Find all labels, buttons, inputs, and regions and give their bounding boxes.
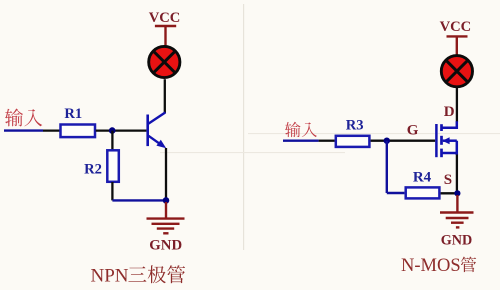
transistor Q1 base bar xyxy=(146,115,149,147)
power bar VCC (right) xyxy=(447,36,468,55)
GND label (right) xyxy=(441,233,473,249)
wire lamp to drain xyxy=(456,88,458,122)
ground stub (left) xyxy=(165,202,167,218)
GND label (left) xyxy=(149,237,182,253)
mosfet Q2 drain connection xyxy=(442,121,457,127)
mosfet Q2 gate bar xyxy=(435,124,438,157)
faint grid line vertical xyxy=(243,4,244,250)
label D xyxy=(444,104,455,120)
wire input to R1 black xyxy=(43,129,60,131)
junction node A xyxy=(109,127,116,134)
wire node A down to R2 xyxy=(111,131,113,150)
svg-text:D: D xyxy=(444,104,455,120)
transistor Q1 collector diagonal xyxy=(149,112,166,123)
input label 输入 (right) xyxy=(285,122,317,137)
mosfet Q2 channel segment bottom xyxy=(440,149,443,158)
wire R2 to emitter node (blue) xyxy=(112,199,166,201)
resistor R3 xyxy=(336,136,370,147)
svg-text:GND: GND xyxy=(149,237,182,253)
wire R2 bottom down xyxy=(111,182,113,200)
caption 三极管 (cjk) xyxy=(128,265,185,283)
resistor R2 xyxy=(107,150,119,182)
svg-text:VCC: VCC xyxy=(440,19,472,35)
junction node B xyxy=(163,197,170,204)
caption 管 (cjk) xyxy=(461,257,476,273)
wire node C down (blue) xyxy=(386,141,388,193)
wire to R4 (blue) xyxy=(387,192,405,194)
resistor R4 xyxy=(406,187,440,198)
svg-text:NPN: NPN xyxy=(91,266,129,287)
junction node C xyxy=(384,138,390,144)
wire input to R3 black xyxy=(319,140,335,142)
label R3 xyxy=(346,118,364,134)
svg-text:R3: R3 xyxy=(346,118,364,134)
wire R3 to gate xyxy=(371,140,436,142)
svg-text:N-MOS: N-MOS xyxy=(401,256,461,276)
faint grid line horizontal upper xyxy=(248,133,500,134)
wire emitter to node B xyxy=(165,148,167,200)
label R1 xyxy=(64,106,82,122)
svg-text:R2: R2 xyxy=(84,162,102,178)
label R4 xyxy=(413,169,432,185)
ground symbol GND (left) xyxy=(147,219,185,234)
wire input stub blue (right) xyxy=(283,139,319,141)
svg-text:R4: R4 xyxy=(413,169,432,185)
ground symbol GND (right) xyxy=(440,213,474,228)
wire R4 to node D xyxy=(441,192,458,194)
resistor R1 xyxy=(61,125,96,138)
VCC label (left) xyxy=(149,10,181,26)
VCC label (right) xyxy=(440,19,472,35)
input label 输入 (left) xyxy=(5,109,42,127)
caption NPN (latin) xyxy=(91,266,129,287)
label S xyxy=(444,172,452,188)
label R2 xyxy=(84,162,102,178)
transistor Q1 emitter diagonal with arrow xyxy=(149,136,167,149)
label G xyxy=(407,123,419,139)
mosfet Q2 body arrow xyxy=(442,137,457,144)
wire lamp to collector xyxy=(164,79,166,113)
mosfet Q2 channel segment top xyxy=(440,124,443,131)
svg-text:S: S xyxy=(444,172,452,188)
caption N-MOS (latin) xyxy=(401,256,461,276)
svg-text:VCC: VCC xyxy=(149,10,181,26)
wire input stub blue (left) xyxy=(4,129,43,131)
faint grid line horizontal lower xyxy=(160,152,345,153)
wire R1 to base xyxy=(96,129,147,131)
svg-text:R1: R1 xyxy=(64,106,82,122)
wire source to node D xyxy=(456,155,458,194)
power bar VCC (left) xyxy=(155,26,176,47)
svg-text:GND: GND xyxy=(441,233,473,249)
mosfet Q2 channel segment middle xyxy=(440,136,443,145)
junction node D xyxy=(454,190,460,196)
lamp DS1 (left) xyxy=(149,46,180,77)
ground stub (right) xyxy=(456,195,458,212)
mosfet Q2 source connection xyxy=(442,141,457,155)
lamp DS2 (right) xyxy=(441,56,472,87)
svg-text:G: G xyxy=(407,123,419,139)
